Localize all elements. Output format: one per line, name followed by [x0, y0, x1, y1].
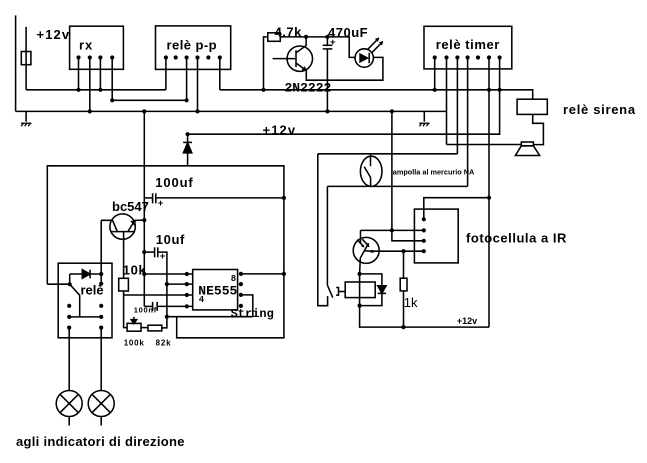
svg-text:1k: 1k — [404, 295, 418, 310]
svg-text:relè timer: relè timer — [436, 37, 500, 52]
svg-text:+: + — [160, 251, 166, 262]
svg-text:100nf: 100nf — [134, 306, 157, 315]
svg-text:10k: 10k — [123, 263, 147, 278]
svg-text:+12v: +12v — [37, 27, 71, 42]
svg-text:relè sirena: relè sirena — [563, 102, 636, 117]
svg-text:relè: relè — [81, 283, 104, 298]
svg-text:8: 8 — [231, 274, 236, 284]
svg-text:rx: rx — [79, 37, 93, 52]
svg-text:agli indicatori di direzione: agli indicatori di direzione — [16, 434, 185, 449]
svg-text:relè p-p: relè p-p — [167, 37, 218, 52]
svg-text:100k: 100k — [124, 338, 145, 347]
svg-text:10uf: 10uf — [156, 232, 185, 247]
svg-text:2N2222: 2N2222 — [285, 81, 332, 96]
svg-text:String: String — [231, 307, 274, 321]
svg-text:+: + — [330, 37, 336, 48]
svg-text:+12v: +12v — [263, 122, 297, 137]
svg-text:4.7k: 4.7k — [275, 25, 303, 40]
svg-text:ampolla al mercurio NA: ampolla al mercurio NA — [393, 168, 475, 177]
svg-text:82k: 82k — [156, 338, 172, 347]
svg-text:fotocellula a IR: fotocellula a IR — [466, 231, 567, 246]
svg-text:bc547: bc547 — [112, 199, 149, 214]
svg-text:+12v: +12v — [457, 316, 477, 326]
svg-text:100uf: 100uf — [155, 175, 193, 190]
svg-text:+: + — [158, 198, 164, 209]
svg-text:4: 4 — [199, 295, 205, 305]
